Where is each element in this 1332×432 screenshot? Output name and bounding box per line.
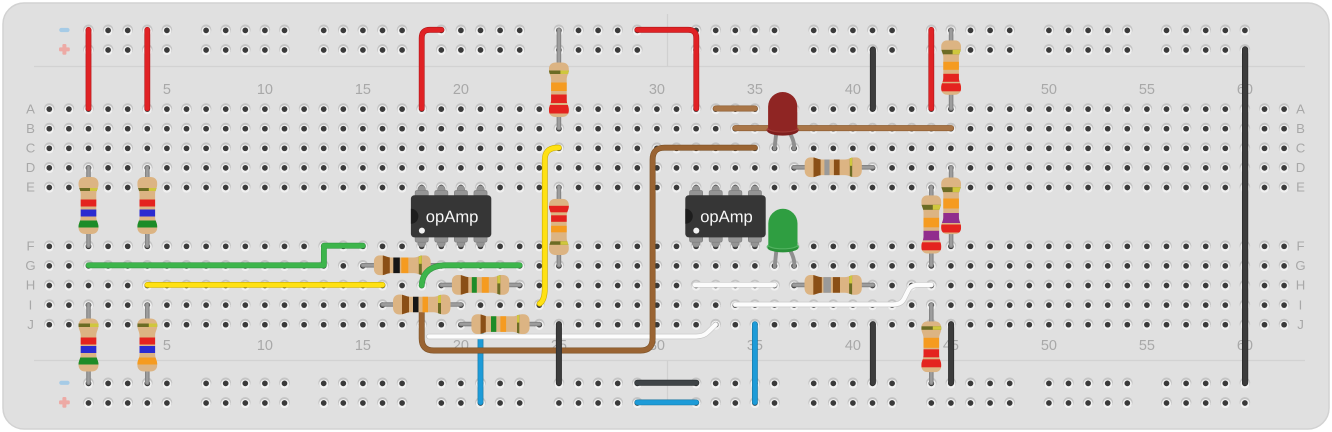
wire W-brown B34 to B45	[735, 125, 951, 131]
svg-text:C: C	[1296, 141, 1306, 156]
wire W-red minus rail col1 to A1	[86, 30, 92, 109]
resistor R11 G15-G19 (brown/black/orange)	[363, 255, 441, 275]
svg-text:F: F	[1296, 239, 1304, 254]
svg-text:opAmp: opAmp	[700, 207, 753, 226]
svg-text:J: J	[1297, 317, 1304, 332]
svg-text:G: G	[1295, 258, 1305, 273]
svg-text:B: B	[1296, 121, 1305, 136]
svg-text:50: 50	[1041, 338, 1057, 354]
svg-text:A: A	[1296, 101, 1305, 116]
op-amp U2 (opAmp, cols 32-35)	[685, 186, 765, 248]
wire W-black top plus rail col41 to A41	[870, 49, 876, 108]
resistor R2 D4-F4 (red/blue/green)	[137, 167, 157, 245]
power rail minus marker bottom-left	[59, 381, 69, 385]
wire W-blue J21 to bottom plus rail (blue, under resistor)	[478, 324, 484, 402]
resistor R7 E25-G25 (red/red/orange)	[549, 187, 569, 265]
resistor R1 D1-F1 (red/blue/green)	[79, 167, 99, 245]
svg-text:40: 40	[845, 82, 861, 98]
resistor R10 I44-minus rail (orange/red/red)	[921, 305, 941, 383]
svg-text:B: B	[26, 121, 35, 136]
wire W-green G1 to F15 (green, stepped)	[89, 246, 363, 266]
svg-text:I: I	[1299, 297, 1303, 312]
svg-text:E: E	[26, 180, 35, 195]
power rail plus marker bottom-left	[59, 397, 70, 408]
svg-text:H: H	[26, 278, 36, 293]
resistor R8 E44-G44 (orange/purple/red)	[921, 187, 941, 265]
column number labels	[163, 82, 1253, 354]
svg-text:J: J	[27, 317, 34, 332]
svg-text:10: 10	[257, 338, 273, 354]
wire W-brown-big I18 to C35 (brown)	[422, 148, 755, 351]
svg-text:opAmp: opAmp	[426, 207, 479, 226]
svg-text:E: E	[1296, 180, 1305, 195]
resistor R13 H19-H23 (brown/green/orange)	[441, 275, 519, 295]
svg-text:5: 5	[163, 82, 171, 98]
resistor R3 I1-minus rail (red/blue/green)	[79, 305, 99, 383]
svg-text:35: 35	[747, 82, 763, 98]
svg-text:5: 5	[163, 338, 171, 354]
svg-text:I: I	[29, 297, 33, 312]
power rail plus marker top-left	[59, 44, 70, 55]
wire W-brown A33 to A35	[716, 106, 755, 112]
svg-text:C: C	[26, 141, 36, 156]
wire W-white1 H32 to H36 (white)	[695, 282, 775, 288]
wire W-red minus rail col44 to A44	[928, 30, 934, 109]
wire W-blue J35 to bottom plus rail (blue)	[752, 324, 758, 402]
svg-text:30: 30	[649, 82, 665, 98]
op-amp U1 (opAmp, cols 18-21)	[411, 186, 491, 248]
wire W-yellow H4 to H16 (yellow)	[147, 282, 382, 288]
svg-text:10: 10	[257, 82, 273, 98]
wire W-green H18 to G23 (green, curved)	[422, 265, 520, 285]
row letter labels	[25, 101, 1305, 332]
svg-text:H: H	[1296, 278, 1306, 293]
svg-text:D: D	[1296, 160, 1306, 175]
wire W-white3 J18 to J33 (white, under brown)	[429, 325, 716, 337]
resistor R12 I16-I20 (brown/black/orange)	[383, 295, 461, 315]
resistor R16 H37-H41 (brown/gray/brown)	[794, 275, 873, 295]
svg-text:F: F	[26, 239, 34, 254]
wire W-black J25 to bottom minus rail	[556, 324, 562, 383]
svg-text:G: G	[25, 258, 35, 273]
wire W-yellow long C25 to I24 (yellow)	[540, 148, 559, 304]
svg-text:15: 15	[355, 338, 371, 354]
wire W-red minus rail col4 to A4	[144, 30, 150, 109]
svg-text:50: 50	[1041, 82, 1057, 98]
wire W-black J41 to bottom minus rail	[870, 324, 876, 383]
wire W-blue bottom plus rail col29 to col32	[637, 399, 696, 405]
wire W-white2 I34 to H44 (white, S-bend)	[735, 285, 931, 305]
svg-text:20: 20	[453, 82, 469, 98]
resistor R15 D37-D41 (brown/gray/brown)	[794, 157, 873, 177]
svg-text:D: D	[26, 160, 36, 175]
wire W-red A18 to top minus rail col19 (bent)	[422, 30, 442, 109]
resistor R14 J20-J24 (brown/green/orange)	[461, 314, 539, 334]
svg-text:55: 55	[1139, 82, 1155, 98]
resistor R9 D45-F45 (orange/purple/red)	[941, 167, 961, 245]
resistor R4 I4-minus rail (red/blue/orange)	[137, 305, 157, 383]
svg-text:A: A	[26, 101, 35, 116]
wire W-darkgray bottom minus rail col29 to col32	[637, 380, 696, 386]
wire W-red top minus rail col29 to A32 (bent)	[637, 30, 696, 109]
svg-text:55: 55	[1139, 338, 1155, 354]
wire W-black J45 to bottom minus rail	[948, 324, 954, 383]
LED D1 dark red (pins C36,C37)	[767, 92, 798, 149]
wire W-black long col60 top plus to bottom minus rail	[1242, 49, 1248, 382]
resistor R5 top minus rail col25 to B25 (orange/red/red)	[549, 30, 569, 128]
LED D2 green (pins G36,G37)	[767, 209, 798, 267]
svg-text:15: 15	[355, 82, 371, 98]
resistor R6 top minus rail col45 to A45 (orange/red/red)	[941, 30, 961, 109]
svg-text:40: 40	[845, 338, 861, 354]
power rail minus marker top-left	[59, 28, 69, 32]
